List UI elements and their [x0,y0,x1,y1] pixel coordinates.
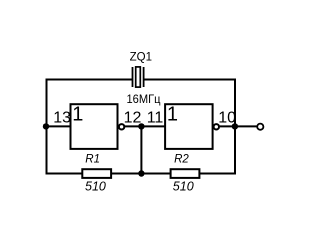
U1 output inversion bubble [119,124,124,129]
svg-text:R1: R1 [85,154,100,166]
wire pin 12 to pin 11 (U1 output bubble to U2 input) [125,125,165,127]
output terminal circle [257,124,263,130]
wire left vertical (top wire down to bottom wire) [46,79,48,175]
crystal ZQ1 [133,67,144,87]
svg-text:R2: R2 [174,154,189,166]
resistor R1 [82,169,111,178]
svg-text:510: 510 [85,179,106,193]
wire top-right (crystal right plate to node B) [145,79,236,81]
node C junction on bottom wire [138,170,144,176]
wire pin 10 output (U2 output bubble to terminal) [220,125,257,127]
wire bottom-right (R2 to right vertical) [200,173,237,175]
wire bottom-middle (R1 to R2 through node C) [111,173,171,175]
resistor R2 [171,169,200,178]
svg-text:ZQ1: ZQ1 [130,52,152,64]
wire top-left (node A to crystal left plate) [47,79,133,81]
U2 output inversion bubble [214,124,219,129]
svg-text:12: 12 [124,110,142,127]
wire node C vertical (pin 12 node down to bottom wire) [140,126,142,173]
node C junction (pin 12 net, middle) [138,123,144,129]
wire pin 13 input (left node to U1 input) [46,125,71,127]
svg-text:1: 1 [72,104,83,126]
svg-text:13: 13 [53,110,71,127]
svg-text:11: 11 [147,110,164,127]
svg-text:510: 510 [173,179,194,193]
node B junction (pin 10 net, right) [232,123,238,129]
node A junction (pin 13 net, left) [43,123,49,129]
svg-text:16МГц: 16МГц [127,94,161,106]
wire bottom-left (left vertical to R1) [46,173,83,175]
svg-text:1: 1 [167,104,178,126]
inverter U1 (logic element 1) [71,104,118,149]
wire right vertical (top wire down through pin 10 node to bottom wire) [234,79,236,175]
inverter U2 (logic element 2) [165,104,213,149]
